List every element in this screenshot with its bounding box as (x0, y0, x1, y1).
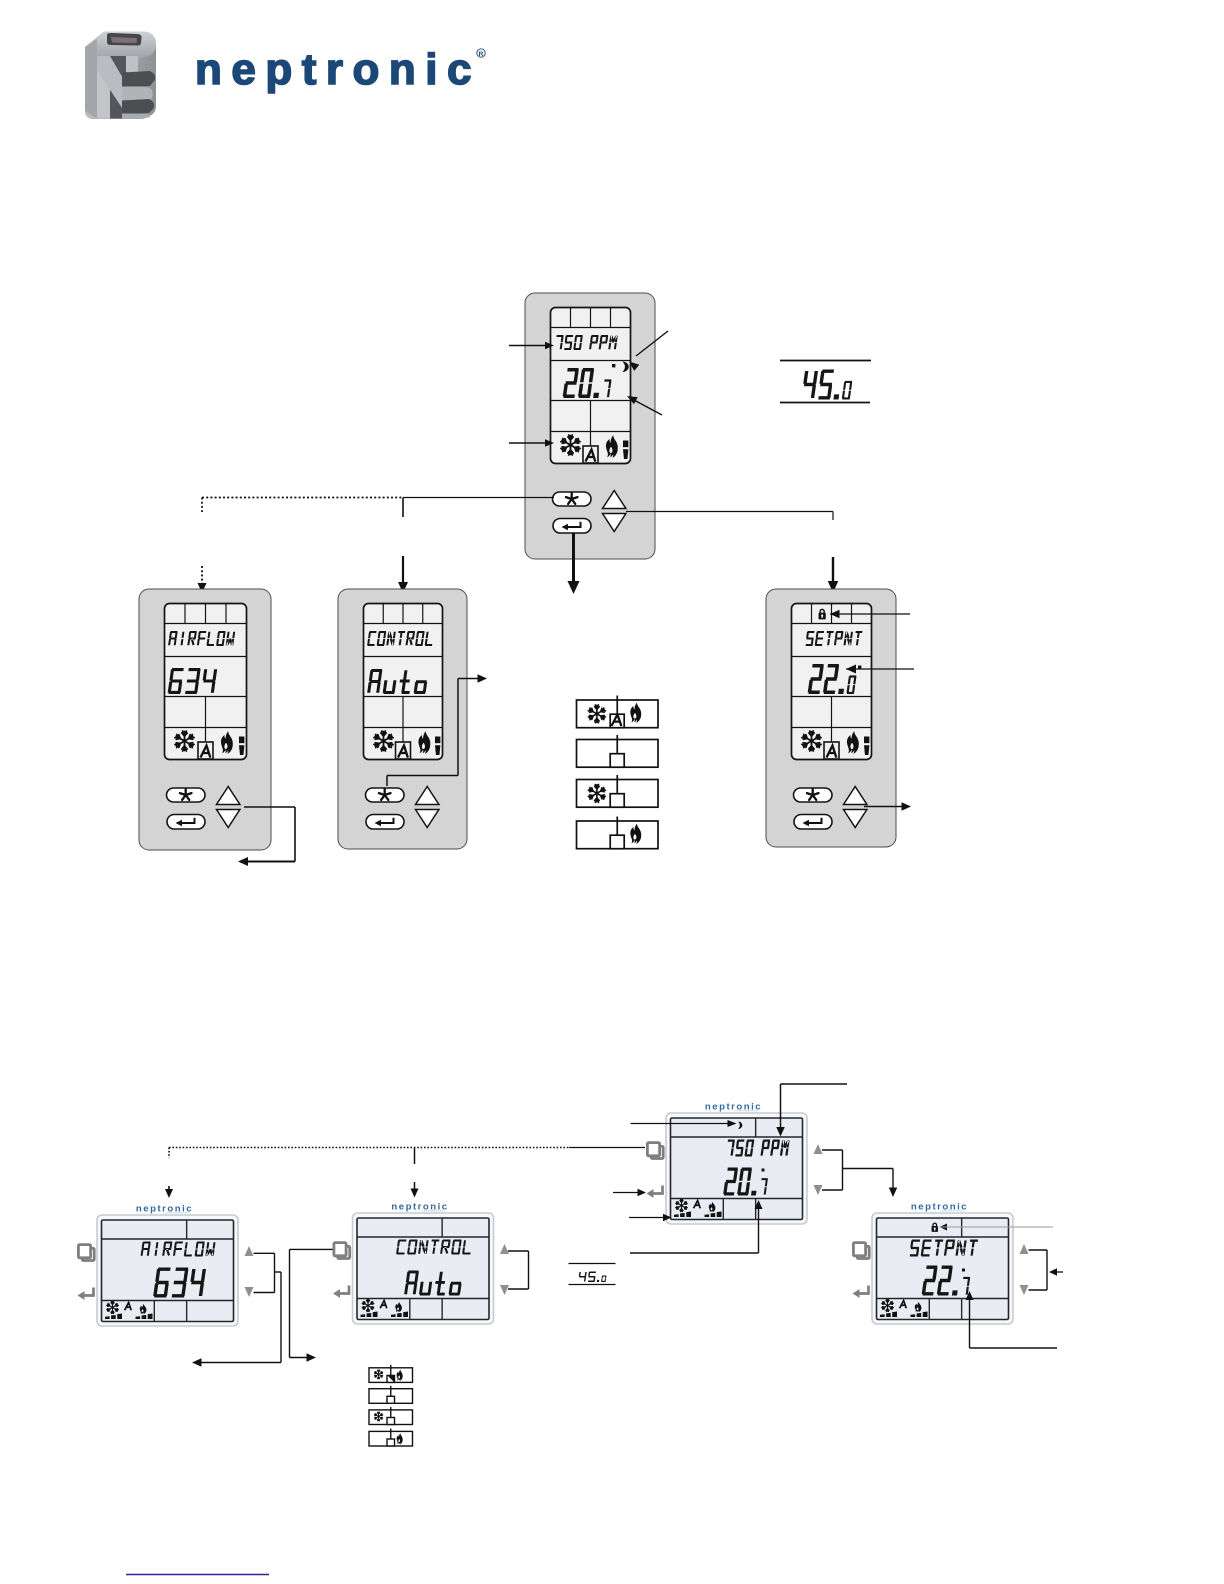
bottom SETPNT body (872, 1213, 1013, 1324)
AIRFLOW menu flame (heating) icon (221, 731, 233, 754)
CONTROL menu star (menu) button (366, 788, 405, 802)
top CO2 display flame (heating) icon (606, 435, 618, 458)
small auto mode flame (397, 1370, 403, 1381)
SETPNT menu auto A-box (824, 742, 839, 759)
CONTROL menu value Auto (367, 669, 427, 694)
thick arrow into SETPNT unit (832, 557, 834, 583)
bottom CO2 display label 750 PPM (728, 1140, 790, 1157)
arrow to bottom enter icon (613, 1192, 638, 1194)
bottom CO2 display LCD grid lines (671, 1136, 803, 1138)
bottom CO2 display value 20.~7 (723, 1168, 768, 1196)
CONTROL star exit path (386, 776, 388, 787)
small A fill (388, 1376, 395, 1383)
top CO2 display A letter (586, 450, 595, 461)
CONTROL menu snowflake (cooling) icon (374, 731, 393, 751)
arrow to bottom icons row (629, 1217, 663, 1219)
SETPNT degree dot (858, 666, 861, 669)
bottom CO2 display LCD panel (671, 1118, 803, 1220)
bottom CO2 display snowflake icon (676, 1199, 688, 1211)
bottom CO2 display A letter (694, 1201, 700, 1208)
SETPNT menu LCD panel (792, 604, 872, 760)
SETPNT menu enter button (794, 815, 832, 830)
bracket from bottom CO2 up/down (822, 1149, 843, 1151)
AIRFLOW menu filter bar icon (239, 737, 244, 756)
thermostat unit SETPNT menu: body (766, 589, 896, 847)
bottom SETPNT label SETPNT (910, 1240, 978, 1257)
neptronic cube logo (85, 32, 156, 120)
bottom CONTROL grey up arrow (500, 1244, 509, 1254)
arrow into bottom AIRFLOW (168, 1186, 170, 1191)
top CO2 display snowflake (cooling) icon (561, 435, 580, 455)
AIRFLOW menu A letter (201, 746, 210, 757)
annotation arrow to mode icons row (509, 442, 546, 444)
solid line to star button (403, 497, 554, 499)
bottom AIRFLOW grey enter icon (84, 1288, 94, 1296)
bottom CONTROL value Auto (404, 1271, 461, 1296)
annotation arrow to setpoint value (846, 665, 856, 674)
bottom CONTROL grey enter icon (339, 1286, 349, 1294)
mode option box auto mode (snow+flame) (577, 700, 659, 728)
bottom SETPNT padlock icon (932, 1223, 938, 1232)
bottom CONTROL A letter (381, 1301, 387, 1308)
SETPNT menu value 22.~0 (808, 664, 857, 694)
SETPNT menu flame (heating) icon (847, 731, 859, 754)
CONTROL menu filter bar icon (435, 737, 440, 756)
bottom AIRFLOW body (97, 1215, 238, 1326)
bottom SETPNT grey menu icon (857, 1246, 869, 1258)
AIRFLOW menu star (menu) button (167, 788, 206, 802)
bottom AIRFLOW flame icon (140, 1304, 147, 1314)
dotted menu line bottom (169, 1147, 569, 1149)
svg-text:R: R (479, 51, 484, 58)
SETPNT menu down arrow button (844, 810, 867, 828)
AIRFLOW menu down arrow button (217, 810, 240, 828)
CONTROL menu star glyph (379, 789, 391, 800)
bottom AIRFLOW bracket (254, 1252, 275, 1254)
bottom SETPNT flame icon (915, 1302, 922, 1312)
AIRFLOW menu enter button (167, 815, 205, 830)
bottom AIRFLOW grey up arrow (245, 1246, 254, 1256)
SETPNT menu snowflake (cooling) icon (802, 731, 821, 751)
A letter in mode box 1 (612, 715, 621, 726)
mode option box cooling mode (577, 780, 659, 808)
bottom SETPNT LCD panel (877, 1218, 1009, 1320)
stub above bottom CONTROL (414, 1148, 416, 1165)
bottom SETPNT decimal annotation (966, 1291, 974, 1300)
mode option box small auto mode (369, 1368, 413, 1383)
top CO2 display star glyph (566, 493, 578, 504)
bottom CONTROL LCD panel (357, 1218, 489, 1320)
mode option box small cooling mode (369, 1410, 413, 1425)
bottom CO2 display body (666, 1113, 807, 1224)
auto mode (snow+flame) flame (630, 702, 641, 723)
AIRFLOW menu auto A-box (198, 742, 213, 759)
bottom SETPNT A letter (900, 1301, 906, 1308)
bottom SETPNT heat fan bars (911, 1311, 928, 1317)
bottom AIRFLOW LCD grid lines (102, 1238, 234, 1240)
bottom CONTROL cool fan bars (361, 1311, 378, 1317)
SETPNT menu padlock icon (819, 609, 826, 619)
CONTROL menu enter button (366, 815, 404, 830)
bottom AIRFLOW grey down arrow (245, 1287, 254, 1297)
small cooling mode snowflake (374, 1412, 382, 1421)
top elbow line into schedule cell (781, 1083, 848, 1085)
AIRFLOW menu LCD panel (165, 604, 247, 760)
SETPNT menu LCD grid lines (792, 623, 872, 625)
top CO2 display enter glyph (567, 522, 581, 527)
registered trademark symbol (477, 49, 485, 57)
annotation diagonal to moon icon (636, 331, 668, 356)
small arrow into bottom SETPNT bracket (1054, 1271, 1063, 1273)
top CO2 display up arrow button (603, 491, 626, 509)
SETPNT menu label text SETPNT (806, 631, 863, 646)
bottom AIRFLOW LCD panel (102, 1220, 234, 1322)
bottom AIRFLOW label AIRFLOW (141, 1242, 216, 1257)
bottom SETPNT value 22.~7 (922, 1266, 970, 1296)
AIRFLOW menu up arrow button (217, 787, 240, 805)
top CO2 display LCD grid lines (551, 327, 631, 329)
bottom CONTROL flame icon (395, 1302, 402, 1312)
CONTROL menu A letter (399, 746, 408, 757)
bottom CO2 display heat fan bars (705, 1211, 722, 1217)
dotted menu path line (202, 497, 403, 499)
bottom CO2 display moon icon (738, 1122, 742, 1130)
small auto mode snowflake (374, 1370, 382, 1379)
long arrow to bottom moon icon (631, 1123, 729, 1125)
bottom CO2 display grey down arrow (814, 1185, 823, 1195)
top CO2 display filter bar icon (623, 441, 628, 460)
bottom SETPNT grey up arrow (1020, 1244, 1029, 1254)
thermostat unit CONTROL menu: body (338, 589, 467, 849)
top CO2 display down arrow button (603, 514, 626, 532)
SETPNT menu enter glyph (808, 818, 822, 823)
bottom AIRFLOW value 634 (153, 1268, 206, 1298)
CONTROL menu down arrow button (416, 810, 439, 828)
bottom CONTROL label CONTROL (396, 1240, 471, 1255)
grey line to bottom padlock (940, 1224, 948, 1231)
SETPNT menu star (menu) button (794, 788, 833, 802)
CONTROL menu LCD grid lines (364, 623, 443, 625)
AIRFLOW menu star glyph (180, 789, 192, 800)
bottom AIRFLOW exit path (275, 1271, 282, 1273)
SETPNT menu star glyph (807, 789, 819, 800)
bottom CONTROL heat fan bars (391, 1311, 408, 1317)
bottom AIRFLOW snowflake icon (107, 1301, 119, 1313)
bottom AIRFLOW grey menu icon (82, 1248, 94, 1260)
humidity display 45.0 top lines (780, 360, 871, 362)
line from up/down buttons to SETPNT (626, 511, 833, 513)
bottom SETPNT snowflake icon (882, 1299, 894, 1311)
small heating mode flame (397, 1433, 403, 1444)
svg-text:neptronic: neptronic (195, 45, 481, 94)
top CO2 display auto A-box (583, 446, 598, 463)
arrow into bottom CONTROL (414, 1182, 416, 1190)
AIRFLOW menu value 634 (168, 668, 217, 694)
annotation arrow to padlock (830, 610, 840, 619)
line to bottom menu icon (569, 1147, 645, 1149)
annotation arrow to CO2 reading (509, 345, 546, 347)
bottom CONTROL menu loop path (290, 1248, 333, 1250)
top CO2 display label text 750 PPM (556, 335, 617, 350)
bottom CONTROL snowflake icon (362, 1299, 374, 1311)
mode option box heating mode (577, 821, 659, 849)
mode option box small heating mode (369, 1431, 413, 1446)
top CO2 display enter button (553, 519, 591, 534)
top CO2 display LCD panel (551, 308, 631, 464)
bottom CONTROL body (353, 1213, 494, 1324)
bottom CO2 display grey menu icon (651, 1146, 663, 1158)
bottom CO2 degree dot (762, 1169, 765, 1172)
bottom AIRFLOW heat fan bars (136, 1313, 153, 1319)
dotted arrow into AIRFLOW unit (201, 566, 203, 585)
bottom CONTROL grey menu icon (338, 1246, 350, 1258)
solid arrow into CONTROL unit (402, 556, 404, 584)
bottom SETPNT bracket (1029, 1249, 1048, 1251)
bottom humidity display 45.0 (569, 1263, 616, 1265)
SETPNT menu A letter (827, 746, 836, 757)
cooling mode snowflake (588, 784, 605, 802)
annotation diagonal from temperature (634, 400, 662, 415)
AIRFLOW exit loop line (244, 806, 295, 808)
auto mode (snow+flame) snowflake (588, 705, 605, 723)
bottom SETPNT grey enter icon (859, 1286, 869, 1294)
bottom CONTROL grey down arrow (500, 1285, 509, 1295)
bottom CONTROL bracket (508, 1250, 529, 1252)
bottom humidity 45.0 (579, 1272, 607, 1283)
bottom SETPNT grey down arrow (1020, 1285, 1029, 1295)
CONTROL menu up arrow button (416, 787, 439, 805)
AIRFLOW menu enter glyph (181, 818, 195, 823)
SETPNT menu up arrow button (844, 787, 867, 805)
arrow from SETPNT up/down buttons (864, 806, 903, 808)
bottom CONTROL LCD grid lines (357, 1236, 489, 1238)
humidity value 45.0 (803, 370, 852, 400)
annotation from decimal temperature (755, 1200, 763, 1209)
top CO2 display star (menu) button (553, 492, 592, 506)
mode option box small off mode (369, 1389, 413, 1404)
heating mode flame (630, 823, 641, 844)
top CO2 display moon icon (622, 362, 628, 373)
bottom SETPNT degree dot (962, 1269, 965, 1272)
CONTROL menu label text CONTROL (367, 631, 432, 646)
thermostat unit AIRFLOW menu: body (139, 589, 271, 850)
top CO2 display value 20.~7 (563, 368, 612, 398)
CONTROL menu enter glyph (380, 818, 394, 823)
AIRFLOW menu snowflake (cooling) icon (175, 731, 194, 751)
thick arrow below enter button (exit) (572, 533, 575, 581)
bottom SETPNT LCD grid lines (877, 1236, 1009, 1238)
bottom CO2 display cool fan bars (674, 1211, 691, 1217)
bottom CO2 display grey enter icon (653, 1186, 663, 1194)
AIRFLOW menu LCD grid lines (165, 623, 247, 625)
dotted stub above bottom AIRFLOW (168, 1148, 170, 1159)
bottom SETPNT cool fan bars (880, 1311, 897, 1317)
CONTROL menu auto A-box (396, 742, 411, 759)
footer rule (126, 1574, 269, 1576)
SETPNT menu filter bar icon (864, 737, 869, 756)
CONTROL menu flame (heating) icon (418, 731, 430, 754)
CONTROL menu LCD panel (364, 604, 443, 760)
bottom AIRFLOW A letter (125, 1303, 131, 1310)
AIRFLOW menu label text AIRFLOW (168, 631, 235, 646)
thermostat unit top CO2 display: body (525, 293, 655, 559)
bottom AIRFLOW cool fan bars (105, 1313, 122, 1319)
bottom CO2 display flame icon (709, 1202, 716, 1212)
bottom CO2 display grey up arrow (814, 1144, 823, 1154)
mode option box off mode (577, 740, 659, 768)
top CO2 degree dot (612, 364, 615, 367)
